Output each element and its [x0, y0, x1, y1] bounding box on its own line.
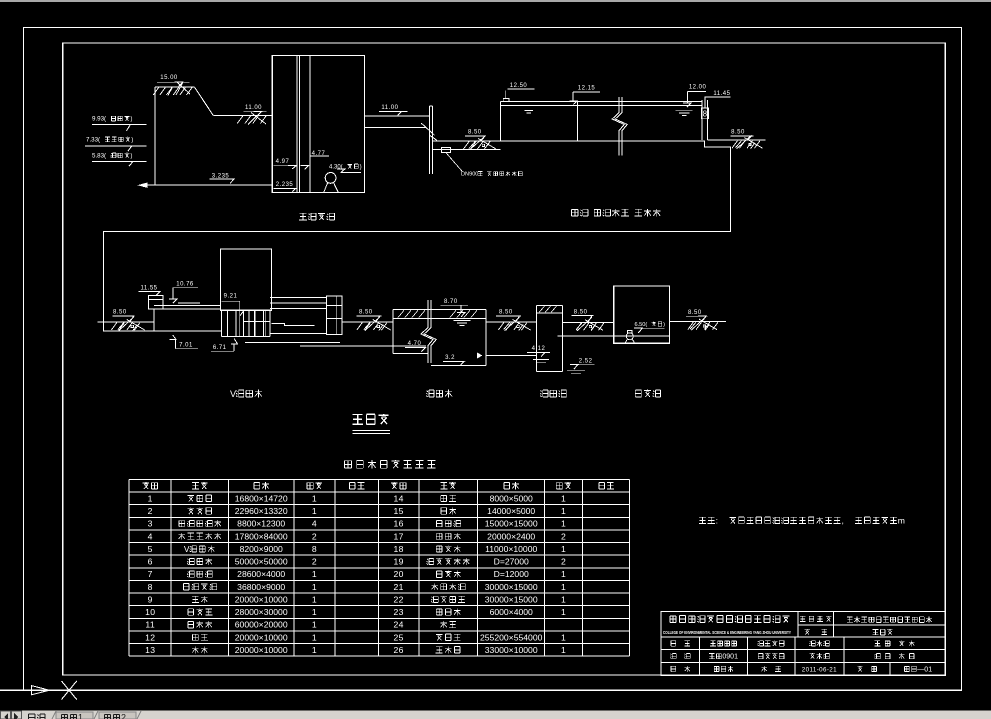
svg-text:5: 5 — [148, 544, 153, 554]
svg-text:4.30(: 4.30( — [329, 165, 343, 171]
svg-text:COLLEGE OF ENVIRONMENTAL SCIEN: COLLEGE OF ENVIRONMENTAL SCIENCE & ENGIN… — [663, 630, 791, 635]
svg-text:1: 1 — [561, 595, 566, 605]
svg-text:22: 22 — [394, 595, 404, 605]
svg-text:60000×20000: 60000×20000 — [235, 620, 288, 630]
svg-text:14000×5000: 14000×5000 — [487, 506, 535, 516]
svg-text:1: 1 — [148, 493, 153, 503]
svg-text:9: 9 — [148, 595, 153, 605]
svg-text:16800×14720: 16800×14720 — [235, 493, 288, 503]
svg-text:8000×5000: 8000×5000 — [490, 493, 533, 503]
svg-text:6000×4000: 6000×4000 — [490, 607, 533, 617]
svg-text:23: 23 — [394, 607, 404, 617]
svg-text:11.55: 11.55 — [140, 285, 157, 291]
svg-text:10: 10 — [145, 607, 155, 617]
svg-text:11000×10000: 11000×10000 — [485, 544, 537, 554]
svg-text:7.33(: 7.33( — [86, 137, 101, 144]
svg-text:19: 19 — [394, 557, 404, 567]
svg-text:1: 1 — [78, 713, 83, 719]
svg-text:8.50: 8.50 — [688, 310, 702, 316]
svg-text:4.70: 4.70 — [408, 341, 422, 347]
svg-text:8200×9000: 8200×9000 — [240, 544, 283, 554]
svg-text:25: 25 — [394, 632, 404, 642]
svg-text:8.50: 8.50 — [113, 310, 127, 316]
svg-text:30000×15000: 30000×15000 — [485, 595, 538, 605]
svg-text:30000×15000: 30000×15000 — [485, 582, 538, 592]
svg-text:6: 6 — [148, 557, 153, 567]
svg-text:8.50: 8.50 — [574, 310, 588, 316]
svg-text:33000×10000: 33000×10000 — [485, 645, 538, 655]
svg-text:17800×84000: 17800×84000 — [235, 531, 288, 541]
svg-text:28000×30000: 28000×30000 — [235, 607, 288, 617]
svg-text:20000×10000: 20000×10000 — [235, 632, 288, 642]
svg-text:4.12: 4.12 — [532, 346, 546, 352]
svg-text:1: 1 — [561, 582, 566, 592]
svg-text:1: 1 — [312, 595, 317, 605]
svg-text:1: 1 — [312, 620, 317, 630]
svg-text:24: 24 — [394, 620, 404, 630]
svg-text:): ) — [130, 153, 132, 160]
svg-text:4: 4 — [312, 519, 317, 529]
svg-text:50000×50000: 50000×50000 — [235, 557, 288, 567]
svg-text:20000×10000: 20000×10000 — [235, 645, 288, 655]
svg-text:28600×4000: 28600×4000 — [237, 569, 285, 579]
svg-text:1: 1 — [561, 544, 566, 554]
svg-text:7.01: 7.01 — [179, 343, 193, 349]
svg-text:): ) — [130, 116, 132, 123]
svg-text:7: 7 — [148, 569, 153, 579]
svg-text:1: 1 — [312, 569, 317, 579]
svg-text:): ) — [131, 137, 133, 144]
svg-text:3: 3 — [148, 519, 153, 529]
svg-text:21: 21 — [394, 582, 404, 592]
svg-text:2: 2 — [561, 557, 566, 567]
svg-text:): ) — [663, 322, 665, 328]
svg-text:8.50: 8.50 — [468, 129, 482, 135]
svg-text:9.21: 9.21 — [224, 294, 238, 300]
svg-text:1: 1 — [312, 582, 317, 592]
svg-text:2: 2 — [148, 506, 153, 516]
svg-text:3.235: 3.235 — [212, 173, 230, 179]
svg-text:20000×10000: 20000×10000 — [235, 595, 288, 605]
svg-text:12.00: 12.00 — [689, 85, 707, 91]
svg-text:11.45: 11.45 — [713, 91, 730, 97]
svg-text:22960×13320: 22960×13320 — [235, 506, 288, 516]
svg-text:16: 16 — [394, 519, 404, 529]
svg-text:—01: —01 — [917, 666, 932, 673]
svg-text:1: 1 — [561, 493, 566, 503]
svg-text:17: 17 — [394, 531, 404, 541]
svg-text:12.15: 12.15 — [578, 85, 596, 91]
svg-text:12: 12 — [145, 632, 155, 642]
svg-text:2.52: 2.52 — [579, 358, 593, 364]
svg-text:2011-06-21: 2011-06-21 — [802, 666, 837, 673]
svg-text:1: 1 — [561, 645, 566, 655]
svg-text:3.2: 3.2 — [445, 355, 455, 361]
svg-text:18: 18 — [394, 544, 404, 554]
svg-text:13: 13 — [145, 645, 155, 655]
svg-text:1: 1 — [561, 607, 566, 617]
svg-text:DN900: DN900 — [461, 172, 478, 178]
svg-text:11: 11 — [145, 620, 155, 630]
svg-text:15.00: 15.00 — [160, 75, 178, 81]
svg-text:1: 1 — [312, 607, 317, 617]
svg-text:2.235: 2.235 — [276, 182, 294, 188]
svg-text:8: 8 — [312, 544, 317, 554]
svg-text:1: 1 — [561, 519, 566, 529]
svg-text:4: 4 — [148, 531, 153, 541]
svg-text:D=12000: D=12000 — [494, 569, 529, 579]
svg-text:2: 2 — [121, 713, 126, 719]
svg-text:,: , — [842, 516, 844, 526]
svg-text:8: 8 — [703, 110, 708, 119]
svg-text:36800×9000: 36800×9000 — [237, 582, 285, 592]
svg-text:1: 1 — [561, 632, 566, 642]
svg-text:14: 14 — [394, 493, 404, 503]
svg-text:6.71: 6.71 — [213, 345, 227, 351]
svg-text:8800×12300: 8800×12300 — [237, 519, 285, 529]
svg-text:V: V — [230, 389, 237, 399]
svg-text:0901: 0901 — [722, 654, 738, 661]
svg-text:D=27000: D=27000 — [494, 557, 529, 567]
svg-text:1: 1 — [312, 645, 317, 655]
svg-text:11.00: 11.00 — [245, 105, 262, 111]
svg-text:9.93(: 9.93( — [92, 116, 107, 123]
svg-text:m: m — [898, 516, 905, 526]
svg-text:8.50: 8.50 — [731, 130, 745, 136]
svg-text:15000×15000: 15000×15000 — [485, 519, 538, 529]
svg-text:V: V — [184, 544, 190, 554]
svg-text:26: 26 — [394, 645, 404, 655]
svg-text::: : — [716, 516, 718, 526]
svg-text:20000×2400: 20000×2400 — [487, 531, 535, 541]
svg-text:8.70: 8.70 — [444, 299, 458, 305]
svg-text:2: 2 — [561, 531, 566, 541]
svg-text:5.83(: 5.83( — [92, 153, 107, 160]
svg-text:1: 1 — [561, 569, 566, 579]
svg-text:1: 1 — [312, 632, 317, 642]
svg-text:): ) — [360, 165, 362, 171]
svg-text:10.76: 10.76 — [176, 282, 194, 288]
svg-text:8: 8 — [148, 582, 153, 592]
svg-text:12.50: 12.50 — [510, 83, 528, 89]
svg-text:1: 1 — [312, 493, 317, 503]
svg-text:8.50: 8.50 — [359, 310, 373, 316]
svg-text:255200×554000: 255200×554000 — [480, 632, 543, 642]
svg-text:1: 1 — [312, 506, 317, 516]
svg-text:15: 15 — [394, 506, 404, 516]
svg-text:20: 20 — [394, 569, 404, 579]
svg-text:2: 2 — [312, 557, 317, 567]
svg-text:11.00: 11.00 — [381, 105, 398, 111]
svg-text:4.97: 4.97 — [276, 159, 290, 165]
svg-text:2: 2 — [312, 531, 317, 541]
svg-text:8.50: 8.50 — [499, 310, 513, 316]
svg-text:1: 1 — [561, 506, 566, 516]
svg-text:6.50(: 6.50( — [635, 322, 648, 328]
